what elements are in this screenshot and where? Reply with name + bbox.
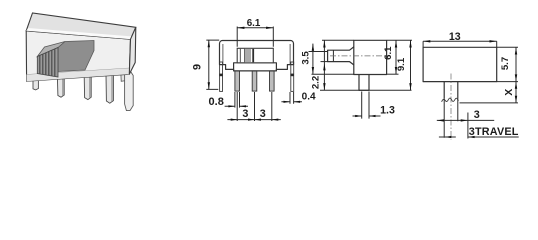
extension lines travel (top view) bbox=[444, 99, 468, 139]
svg-text:2.2: 2.2 bbox=[311, 76, 322, 89]
svg-text:0.4: 0.4 bbox=[302, 91, 316, 102]
svg-text:3: 3 bbox=[260, 108, 266, 120]
svg-text:3: 3 bbox=[242, 108, 248, 120]
extension line knob top (side view) bbox=[309, 51, 328, 53]
svg-text:9.1: 9.1 bbox=[396, 57, 407, 71]
svg-text:3.5: 3.5 bbox=[300, 51, 311, 65]
bracket tab left (front view) bbox=[220, 62, 223, 91]
cover seam on front face bbox=[27, 68, 130, 74]
switch body outline (front view) bbox=[220, 41, 294, 71]
switch body (side view) bbox=[354, 40, 387, 74]
svg-text:5.7: 5.7 bbox=[500, 57, 511, 70]
switch body front face (3D) bbox=[26, 31, 130, 81]
extension line body bottom (side view) bbox=[312, 73, 354, 75]
bracket right rear tab (3D) bbox=[121, 72, 127, 81]
knob ridged front face (3D) bbox=[37, 48, 58, 78]
svg-text:9: 9 bbox=[192, 64, 204, 70]
svg-text:13: 13 bbox=[449, 31, 461, 43]
terminal pin 3 (front view) bbox=[270, 71, 275, 91]
knob ridges (front view) bbox=[240, 49, 244, 63]
knob recess / shaft (3D) bbox=[58, 41, 94, 72]
dimension 6.1 (front view knob width) bbox=[237, 27, 273, 47]
bracket tab right (front view) bbox=[291, 62, 294, 91]
svg-text:3TRAVEL: 3TRAVEL bbox=[469, 126, 519, 138]
dimension 1.3 (side view pin width) bbox=[362, 92, 369, 119]
switch body top face (3D) bbox=[26, 13, 136, 39]
pin 2 (3D) bbox=[84, 76, 91, 99]
dimension 0.8 (pin width) bbox=[235, 92, 240, 108]
cover inner wall lines (front view) bbox=[223, 44, 290, 64]
dimension 0.4 (bracket thickness) bbox=[290, 92, 294, 104]
svg-text:3: 3 bbox=[474, 109, 480, 121]
switch body right face (3D) bbox=[129, 27, 136, 74]
svg-text:6.1: 6.1 bbox=[247, 18, 261, 29]
knob actuator (side view) bbox=[328, 47, 354, 65]
terminal pin (side view) bbox=[359, 75, 369, 91]
dimension X (knob length) bbox=[460, 102, 519, 104]
knob housing (front view) bbox=[237, 48, 273, 63]
dimension 3.5 (side view) bbox=[312, 44, 314, 75]
pin rear-right (3D) bbox=[125, 72, 134, 111]
dimension 9.1 (side view total height) bbox=[387, 39, 412, 41]
break wave (top view knob) bbox=[442, 98, 459, 102]
terminal pin 2 (front view) bbox=[252, 71, 257, 91]
travel leader line (top view) bbox=[439, 136, 456, 138]
svg-text:0.8: 0.8 bbox=[209, 96, 224, 108]
knob top face (3D) bbox=[37, 42, 65, 57]
centerline (top view) bbox=[450, 74, 452, 140]
pin 3 (3D) bbox=[106, 75, 113, 103]
svg-text:6.1: 6.1 bbox=[383, 46, 394, 60]
terminal pin 1 (front view) bbox=[235, 71, 240, 91]
dimension 9 (front view height) bbox=[206, 40, 219, 89]
dimension 3 3 (pin pitch) bbox=[237, 92, 272, 121]
dimension 2.2 (side view) bbox=[323, 40, 325, 90]
pin bracket left (3D) bbox=[33, 80, 38, 90]
dimension 6.1 (side view body height) bbox=[387, 73, 399, 75]
svg-text:X: X bbox=[503, 89, 515, 96]
extension line knob bottom (side view) bbox=[321, 61, 328, 63]
switch body (top view) bbox=[423, 47, 497, 81]
extension line body top (side view) bbox=[322, 39, 354, 41]
svg-text:1.3: 1.3 bbox=[380, 105, 395, 117]
base plate (front view) bbox=[234, 63, 277, 71]
pin 1 (3D) bbox=[57, 78, 64, 98]
knob with break (top view) bbox=[444, 82, 458, 99]
dimension 5.7 (top view depth) bbox=[497, 47, 518, 81]
dimension 3 travel (top view) bbox=[437, 119, 494, 121]
extension line pin bottom (side view) bbox=[320, 89, 412, 91]
dimension 13 (top view width) bbox=[423, 41, 497, 47]
centerline (side view knob axis) bbox=[330, 55, 390, 57]
